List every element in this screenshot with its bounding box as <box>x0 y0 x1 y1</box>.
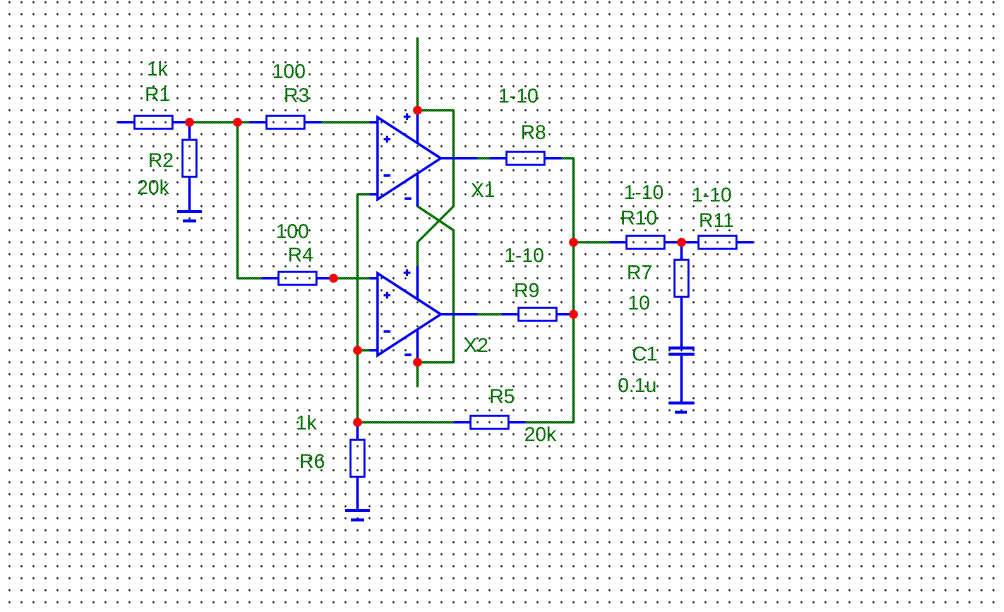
wire to X1 -in <box>358 193 370 195</box>
wire R6 junction to R5 <box>358 421 454 423</box>
wire diagonal to X2 V+ <box>418 206 454 242</box>
wire to X2 -in <box>358 349 370 351</box>
svg-text:20k: 20k <box>137 177 170 199</box>
resistor R4 <box>262 272 334 285</box>
resistor R1 <box>118 116 190 129</box>
resistor R10 <box>610 236 682 249</box>
wire top supply stub <box>416 38 418 110</box>
op-amp X2 <box>370 266 478 362</box>
X2 V- label <box>405 353 412 356</box>
wire to R4 left <box>238 277 262 279</box>
wire supply down <box>452 110 454 206</box>
svg-text:X1: X1 <box>471 180 495 202</box>
ground below R2 <box>177 212 202 221</box>
resistor R7 <box>675 242 689 314</box>
resistor R2 <box>183 122 197 211</box>
svg-text:20k: 20k <box>524 424 557 446</box>
node A <box>233 118 242 127</box>
wire R1 junction to R3 <box>190 121 250 123</box>
node X1 V+ <box>413 106 422 115</box>
svg-text:100: 100 <box>272 61 305 83</box>
X2 +in label <box>384 292 391 299</box>
wire vertical feedback bus <box>356 194 358 422</box>
node R5/R6 <box>353 418 362 427</box>
wire R4 out to X2 +in <box>334 277 370 279</box>
svg-text:1-10: 1-10 <box>624 182 664 204</box>
node R9 out <box>569 310 578 319</box>
svg-text:0.1u: 0.1u <box>618 375 657 397</box>
resistor R8 <box>490 152 562 165</box>
svg-text:R4: R4 <box>288 245 314 267</box>
svg-text:1k: 1k <box>147 58 169 80</box>
resistor R5 <box>454 416 526 429</box>
node R4 out <box>329 274 338 283</box>
svg-text:R8: R8 <box>521 122 547 144</box>
ground below C1 <box>669 403 695 412</box>
svg-text:1-10: 1-10 <box>504 245 544 267</box>
op-amp X1 <box>370 110 478 206</box>
resistor R11 <box>682 236 754 249</box>
svg-text:R11: R11 <box>699 210 734 232</box>
node R10/R11/R7 <box>677 238 686 247</box>
X2 -in label <box>384 330 391 333</box>
svg-text:C1: C1 <box>632 344 658 366</box>
svg-text:10: 10 <box>628 293 650 315</box>
wire vertical node A down <box>236 122 238 278</box>
wire bus to R10 <box>574 241 610 243</box>
resistor R6 <box>351 422 365 510</box>
wire X2 V- junction right <box>418 361 454 363</box>
wire X1 out to R8 <box>478 157 490 159</box>
wire X2 out to R9 <box>478 313 502 315</box>
wire diagonal from X1 V- <box>418 206 454 230</box>
node R1/R2 <box>185 118 194 127</box>
node X2 V- <box>413 358 422 367</box>
svg-text:100: 100 <box>276 221 309 243</box>
capacitor C1 <box>669 314 695 403</box>
svg-text:R2: R2 <box>148 150 174 172</box>
wire right bus vertical <box>572 158 574 422</box>
wire X2 V+ vertical <box>416 242 418 266</box>
svg-text:R1: R1 <box>145 84 171 106</box>
svg-text:1-10: 1-10 <box>692 185 732 207</box>
svg-text:R7: R7 <box>627 262 653 284</box>
wire X2 V- stub down <box>416 362 418 386</box>
wire V- bus down <box>452 230 454 362</box>
ground below R6 <box>345 511 370 520</box>
svg-text:1-10: 1-10 <box>498 85 538 107</box>
X1 V- label <box>405 197 412 200</box>
X2 V+ label <box>404 269 411 276</box>
resistor R9 <box>502 308 574 321</box>
svg-text:X2: X2 <box>464 335 488 357</box>
wire supply right <box>418 109 454 111</box>
svg-text:R10: R10 <box>621 208 658 230</box>
svg-text:R9: R9 <box>514 280 540 302</box>
svg-text:R3: R3 <box>284 85 310 107</box>
resistor R3 <box>250 116 322 129</box>
X1 +in label <box>384 136 391 143</box>
svg-text:R6: R6 <box>299 451 325 473</box>
wire R5 out to bus <box>526 421 574 423</box>
wire R8 out <box>562 157 574 159</box>
wire R3 to X1 +in <box>322 121 370 123</box>
node X2 -in <box>353 346 362 355</box>
node R8/R10 <box>569 238 578 247</box>
X1 -in label <box>384 174 391 177</box>
X1 V+ label <box>404 113 411 120</box>
svg-text:1k: 1k <box>296 413 318 435</box>
svg-text:R5: R5 <box>489 386 515 408</box>
